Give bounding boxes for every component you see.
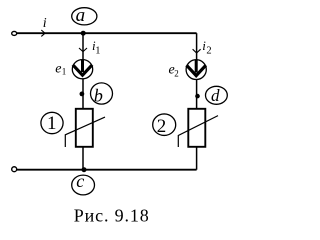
svg-text:i: i xyxy=(43,16,47,31)
svg-text:d: d xyxy=(211,86,220,105)
svg-text:1: 1 xyxy=(95,45,100,56)
svg-text:Рис. 9.18: Рис. 9.18 xyxy=(74,206,150,226)
svg-text:2: 2 xyxy=(206,46,211,57)
svg-text:e: e xyxy=(55,62,61,77)
svg-text:1: 1 xyxy=(47,113,57,134)
svg-text:2: 2 xyxy=(174,68,179,78)
svg-text:c: c xyxy=(76,171,84,191)
svg-text:1: 1 xyxy=(62,67,67,77)
svg-text:2: 2 xyxy=(157,116,167,137)
svg-text:a: a xyxy=(76,5,86,26)
svg-text:b: b xyxy=(94,86,103,106)
